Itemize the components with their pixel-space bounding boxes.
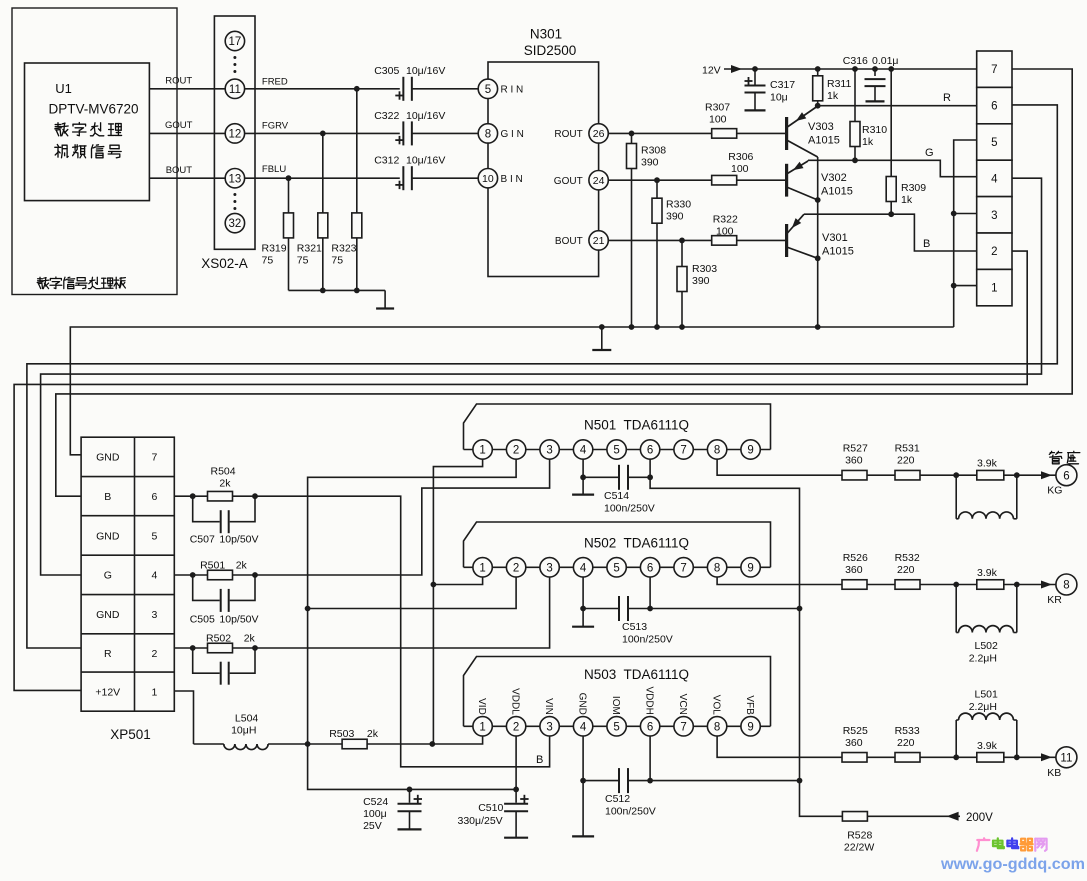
N502 pin 6 bbox=[640, 558, 659, 577]
svg-text:10μ/16V: 10μ/16V bbox=[406, 155, 445, 167]
svg-text:22/2W: 22/2W bbox=[844, 842, 874, 854]
svg-text:V303: V303 bbox=[808, 121, 834, 133]
junction N503 pin6/C512 bbox=[647, 778, 653, 784]
svg-text:R306: R306 bbox=[728, 151, 753, 163]
svg-text:2: 2 bbox=[151, 648, 157, 660]
capacitor C514 100n/250V bbox=[618, 465, 629, 490]
N502 pin 9 bbox=[741, 558, 760, 577]
svg-text:390: 390 bbox=[692, 275, 710, 287]
junction 200V rail at N502 bbox=[797, 606, 803, 612]
svg-text:R532: R532 bbox=[895, 552, 920, 564]
node junction on FGRV at R321 bbox=[320, 131, 326, 137]
wire ROUT to R307 bbox=[608, 132, 711, 134]
svg-text:220: 220 bbox=[897, 455, 915, 467]
svg-text:75: 75 bbox=[331, 255, 343, 267]
svg-text:3.9k: 3.9k bbox=[977, 567, 998, 579]
svg-text:BOUT: BOUT bbox=[166, 165, 193, 176]
svg-text:GND: GND bbox=[577, 693, 588, 715]
svg-text:1: 1 bbox=[479, 562, 485, 574]
wire C305 to N301 pin 5 bbox=[412, 88, 478, 90]
svg-text:VIN: VIN bbox=[543, 698, 554, 715]
svg-text:C505: C505 bbox=[190, 614, 215, 626]
N503 pin 4 bbox=[573, 717, 592, 736]
svg-text:220: 220 bbox=[897, 564, 915, 576]
svg-text:0.01μ: 0.01μ bbox=[872, 55, 899, 67]
N503 pin 9 bbox=[741, 717, 760, 736]
stub N502 pin1 bbox=[433, 577, 482, 585]
watermark 广电电器网 bbox=[983, 838, 986, 839]
svg-text:A1015: A1015 bbox=[821, 186, 853, 198]
svg-text:6: 6 bbox=[647, 445, 653, 457]
wire GOUT from U1 to XS02-A pin 12 bbox=[149, 132, 225, 134]
wire 200V rail down to R528 line bbox=[800, 781, 843, 817]
svg-text:R330: R330 bbox=[666, 199, 691, 211]
svg-text:GOUT: GOUT bbox=[165, 120, 193, 131]
capacitor C513 100n/250V bbox=[618, 596, 629, 621]
svg-text:R: R bbox=[943, 92, 951, 104]
node junction on FBLU at R319 bbox=[286, 175, 292, 181]
svg-text:9: 9 bbox=[747, 562, 753, 574]
svg-text:360: 360 bbox=[845, 737, 863, 749]
wire BOUT to R322 bbox=[608, 239, 711, 241]
svg-text:5: 5 bbox=[613, 445, 619, 457]
svg-text:R I N: R I N bbox=[501, 85, 524, 96]
capacitor C305 10u/16V bbox=[402, 77, 413, 101]
svg-text:75: 75 bbox=[297, 255, 309, 267]
transistor V301 A1015 bbox=[785, 224, 788, 257]
capacitor C312 10u/16V bbox=[402, 166, 413, 190]
svg-text:100: 100 bbox=[731, 163, 749, 175]
wire R525 to R533 bbox=[867, 756, 895, 758]
svg-text:32: 32 bbox=[229, 218, 242, 230]
wire V303/V302/V301 collectors to ground bus bbox=[817, 157, 819, 327]
svg-text:ROUT: ROUT bbox=[554, 129, 582, 140]
svg-text:B I N: B I N bbox=[501, 174, 523, 185]
resistor R504 2k bbox=[208, 491, 233, 501]
wire N503 pin6 down bbox=[649, 736, 651, 781]
svg-text:2k: 2k bbox=[367, 728, 379, 740]
svg-text:ROUT: ROUT bbox=[165, 76, 192, 87]
N501 pin 9 bbox=[741, 440, 760, 459]
svg-text:10μH: 10μH bbox=[231, 725, 256, 737]
svg-text:1k: 1k bbox=[827, 90, 839, 102]
board label 数字信号处理板 bbox=[38, 278, 43, 280]
wire VID chain N501.1-N502.1-N503.1 bbox=[433, 459, 482, 744]
svg-text:390: 390 bbox=[666, 211, 684, 223]
stub to pin 1 bbox=[954, 285, 977, 287]
svg-text:GND: GND bbox=[96, 452, 120, 464]
resistor R319 75 bbox=[284, 213, 294, 238]
N301 pin 10 BIN bbox=[478, 169, 497, 188]
IC U1 DPTV-MV6720 box bbox=[25, 63, 150, 201]
svg-text:21: 21 bbox=[593, 235, 605, 247]
XS02-A pin 13 bbox=[225, 169, 244, 188]
junction 12V/C316 bbox=[872, 66, 878, 72]
IC N503 TDA6111Q box bbox=[464, 657, 771, 727]
resistor R307 100 in series to V303 base bbox=[712, 129, 737, 139]
svg-text:11: 11 bbox=[229, 84, 241, 96]
resistor R527 360 bbox=[842, 470, 867, 480]
resistor R330 390 to ground bus bbox=[656, 180, 658, 327]
svg-text:10μ/16V: 10μ/16V bbox=[406, 110, 445, 122]
junction damping network left bbox=[953, 472, 959, 478]
resistor R533 220 bbox=[895, 753, 920, 763]
svg-text:220: 220 bbox=[897, 737, 915, 749]
resistor R310 1k from 12V to V302 emitter bbox=[854, 69, 856, 160]
wire C513 to 200V rail bbox=[650, 608, 799, 610]
svg-text:100: 100 bbox=[709, 114, 727, 126]
capacitor C510 330u/25V bbox=[515, 789, 517, 803]
socket pin 6 KG bbox=[1056, 465, 1077, 486]
N501 pin 4 bbox=[573, 440, 592, 459]
svg-text:C507: C507 bbox=[190, 534, 215, 546]
svg-text:2k: 2k bbox=[219, 478, 231, 490]
svg-text:C305: C305 bbox=[374, 65, 399, 77]
svg-text:L501: L501 bbox=[975, 689, 999, 701]
svg-text:100n/250V: 100n/250V bbox=[604, 503, 655, 515]
svg-text:G I N: G I N bbox=[501, 129, 524, 140]
wire N503 pin4 to ground and C512 bbox=[582, 736, 584, 781]
inductor L504 10uH bbox=[194, 743, 224, 745]
junction ground stem bbox=[599, 324, 605, 330]
svg-text:R323: R323 bbox=[331, 243, 356, 255]
wire C322 to N301 pin 8 bbox=[412, 132, 478, 134]
capacitor C507 10p/50V parallel bbox=[193, 496, 221, 522]
junction R501 right bbox=[252, 572, 258, 578]
svg-text:FRED: FRED bbox=[262, 77, 288, 88]
wire BOUT from U1 to XS02-A pin 13 bbox=[149, 177, 225, 179]
junction R503/VID chain bbox=[429, 741, 435, 747]
svg-text:B: B bbox=[536, 754, 543, 766]
svg-text:R501: R501 bbox=[200, 560, 225, 572]
resistor R309 1k from 12V to V301 emitter bbox=[890, 69, 892, 214]
junction 12V/C317 bbox=[752, 66, 758, 72]
N503 pin 1 bbox=[473, 717, 492, 736]
junction V302 emitter / R310 / G line bbox=[852, 157, 858, 163]
svg-text:R533: R533 bbox=[895, 725, 920, 737]
svg-text:C512: C512 bbox=[605, 793, 630, 805]
svg-text:2.2μH: 2.2μH bbox=[969, 701, 997, 713]
svg-text:C316: C316 bbox=[843, 55, 868, 67]
svg-text:R504: R504 bbox=[211, 466, 236, 478]
N503 pin 2 bbox=[506, 717, 525, 736]
svg-text:1: 1 bbox=[151, 687, 157, 699]
svg-text:9: 9 bbox=[747, 445, 753, 457]
svg-text:4: 4 bbox=[580, 721, 587, 733]
svg-text:A1015: A1015 bbox=[808, 135, 840, 147]
svg-text:9: 9 bbox=[747, 721, 753, 733]
N501 pin 1 bbox=[473, 440, 492, 459]
junction R501 left bbox=[190, 572, 196, 578]
wire from connector pin 6 (R) wrapping to XP501 row 2 bbox=[27, 105, 1057, 648]
N502 pin 1 bbox=[473, 558, 492, 577]
N503 pin 7 bbox=[674, 717, 693, 736]
CRT connector pins 7..1 outline bbox=[977, 51, 1012, 87]
resistor R531 220 bbox=[895, 470, 920, 480]
N502 pin 8 bbox=[707, 558, 726, 577]
svg-text:100: 100 bbox=[716, 226, 734, 238]
svg-text:VDDH: VDDH bbox=[644, 686, 655, 714]
svg-text:100n/250V: 100n/250V bbox=[605, 806, 656, 818]
wire from connector pin 4 (G) wrapping to XP501 row 4 bbox=[41, 178, 1042, 575]
svg-text:7: 7 bbox=[680, 721, 686, 733]
svg-text:1k: 1k bbox=[862, 136, 874, 148]
N501 pin 3 bbox=[540, 440, 559, 459]
XS02-A ellipsis dots upper bbox=[233, 56, 236, 59]
capacitor parallel with R502 bbox=[193, 648, 221, 673]
svg-text:GND: GND bbox=[96, 530, 120, 542]
capacitor C317 10u to ground bbox=[754, 69, 756, 85]
svg-text:VFB: VFB bbox=[744, 695, 755, 715]
svg-text:VDDL: VDDL bbox=[510, 688, 521, 715]
svg-text:390: 390 bbox=[641, 157, 659, 169]
svg-text:25V: 25V bbox=[363, 820, 382, 832]
capacitor C512 100n/250V bbox=[618, 768, 629, 793]
resistor R501 2k bbox=[208, 570, 233, 580]
svg-text:5: 5 bbox=[485, 84, 491, 96]
svg-text:2.2μH: 2.2μH bbox=[969, 653, 997, 665]
N502 pin 4 bbox=[573, 558, 592, 577]
svg-text:SID2500: SID2500 bbox=[524, 43, 577, 58]
junction VDDL rail C524 bbox=[407, 787, 413, 793]
wire KG output from pin 8 of IC bbox=[717, 459, 842, 475]
svg-text:1: 1 bbox=[479, 445, 485, 457]
junction 12V/R309 bbox=[888, 66, 894, 72]
svg-text:1k: 1k bbox=[901, 194, 913, 206]
wire joining resistor bottoms bbox=[289, 289, 386, 291]
svg-text:XS02-A: XS02-A bbox=[201, 256, 248, 271]
svg-text:10: 10 bbox=[482, 173, 494, 185]
junction damping network right bbox=[1014, 582, 1020, 588]
svg-text:8: 8 bbox=[714, 445, 720, 457]
N502 pin 7 bbox=[674, 558, 693, 577]
svg-text:4: 4 bbox=[580, 445, 587, 457]
junction R303 bottom bbox=[679, 324, 685, 330]
wire R526 to R532 bbox=[867, 584, 895, 586]
wire ground chain to connector pins 5,3,1 bbox=[954, 140, 977, 327]
wire VDDL chain N501.2-N502.2 down to L504 node bbox=[308, 459, 516, 789]
svg-text:KG: KG bbox=[1047, 485, 1062, 497]
svg-text:3: 3 bbox=[991, 210, 997, 222]
svg-text:2: 2 bbox=[991, 246, 997, 258]
junction V303 emitter / R311 / R line bbox=[815, 103, 821, 109]
svg-text:B: B bbox=[104, 491, 111, 503]
svg-text:C510: C510 bbox=[478, 802, 503, 814]
svg-text:7: 7 bbox=[151, 452, 157, 464]
wire N502 pin4 to ground and C513 bbox=[582, 577, 584, 609]
svg-text:FGRV: FGRV bbox=[262, 121, 289, 132]
wire R532 to damping network bbox=[920, 584, 956, 586]
svg-text:11: 11 bbox=[1060, 752, 1072, 764]
XS02-A pin 11 bbox=[225, 79, 244, 98]
svg-text:6: 6 bbox=[151, 491, 157, 503]
junction damping network left bbox=[953, 582, 959, 588]
resistor R503 2k bbox=[308, 743, 433, 745]
svg-text:VCN: VCN bbox=[677, 694, 688, 715]
svg-text:8: 8 bbox=[714, 721, 720, 733]
wire 200V rail N502 to N503 bbox=[799, 609, 801, 781]
resistor R321 75 bbox=[318, 213, 328, 238]
resistor R306 100 in series to V302 base bbox=[712, 175, 737, 185]
wire C512 to 200V rail bbox=[650, 780, 799, 782]
IC N301 SID2500 box bbox=[488, 62, 599, 277]
wire G route XP501 to N501 pin 3 bbox=[255, 459, 550, 575]
wire R route XP501 to N502 pin 3 bbox=[255, 577, 550, 648]
svg-text:+12V: +12V bbox=[95, 687, 120, 699]
U1 label 视频信号 bbox=[57, 145, 58, 147]
svg-text:G: G bbox=[925, 147, 934, 159]
wire B route XP501 to N503 pin 3 bbox=[255, 496, 550, 767]
svg-text:330μ/25V: 330μ/25V bbox=[458, 815, 503, 827]
N501 pin 8 bbox=[707, 440, 726, 459]
svg-text:N503 TDA6111Q: N503 TDA6111Q bbox=[584, 667, 689, 682]
svg-text:3: 3 bbox=[546, 721, 552, 733]
wire R307 to V303 base bbox=[737, 132, 787, 134]
resistor R308 390 to ground bus bbox=[631, 133, 633, 327]
wire R306 to V302 base bbox=[737, 179, 787, 181]
label socket 管座 bbox=[1049, 451, 1051, 454]
svg-text:R322: R322 bbox=[713, 214, 738, 226]
wire KB output from pin 8 of IC bbox=[717, 736, 842, 757]
junction R504 left bbox=[190, 493, 196, 499]
N501 pin 7 bbox=[674, 440, 693, 459]
junction V302 collector bbox=[815, 197, 821, 203]
N501 pin 2 bbox=[506, 440, 525, 459]
svg-text:N501 TDA6111Q: N501 TDA6111Q bbox=[584, 418, 689, 433]
ground bus wire bbox=[70, 327, 953, 455]
capacitor C524 100u 25V bbox=[409, 789, 411, 803]
svg-text:C312: C312 bbox=[374, 155, 399, 167]
resistor R532 220 bbox=[895, 580, 920, 590]
wire from connector pin 2 (B) wrapping to XP501 row 1 bbox=[14, 251, 1027, 690]
inductor parallel damping bbox=[955, 475, 957, 519]
svg-text:R307: R307 bbox=[705, 102, 730, 114]
wire R528 to 200V source bbox=[867, 815, 960, 817]
svg-text:GOUT: GOUT bbox=[554, 176, 583, 187]
svg-text:4: 4 bbox=[151, 570, 157, 582]
svg-text:R321: R321 bbox=[297, 243, 322, 255]
svg-text:A1015: A1015 bbox=[822, 246, 854, 258]
N503 pin 5 bbox=[607, 717, 626, 736]
junction damping network right bbox=[1014, 754, 1020, 760]
junction R323 bottom bbox=[354, 288, 360, 294]
svg-text:2k: 2k bbox=[236, 560, 248, 572]
svg-text:5: 5 bbox=[613, 562, 619, 574]
ground symbol below bus bbox=[601, 327, 603, 350]
svg-text:R528: R528 bbox=[847, 830, 872, 842]
wire R533 to damping network bbox=[920, 756, 956, 758]
svg-text:8: 8 bbox=[1063, 580, 1069, 592]
svg-text:2k: 2k bbox=[244, 633, 256, 645]
wire ROUT from U1 to XS02-A pin 11 bbox=[149, 88, 225, 90]
svg-text:100μ: 100μ bbox=[363, 808, 387, 820]
junction 200V rail at N503 bbox=[797, 778, 803, 784]
wire B line (blue) from V301 emitter to CRT connector pin 2 bbox=[891, 214, 977, 251]
inductor parallel damping bbox=[955, 585, 957, 633]
svg-text:FBLU: FBLU bbox=[262, 164, 286, 175]
svg-text:10μ: 10μ bbox=[770, 92, 788, 104]
svg-text:R309: R309 bbox=[901, 182, 926, 194]
svg-text:L504: L504 bbox=[235, 713, 259, 725]
resistor R528 22/2W from 200V bbox=[842, 812, 867, 822]
svg-text:5: 5 bbox=[151, 530, 157, 542]
XS02-A pin 17 bbox=[225, 31, 244, 50]
wire GOUT to R306 bbox=[608, 179, 711, 181]
capacitor C322 10u/16V bbox=[402, 121, 413, 145]
svg-text:VOL: VOL bbox=[711, 695, 722, 715]
capacitor C316 0.01u to ground bbox=[874, 69, 876, 76]
svg-text:3.9k: 3.9k bbox=[977, 740, 998, 752]
wire G line (green) to CRT connector pin 4 bbox=[855, 160, 977, 176]
svg-text:4: 4 bbox=[580, 562, 587, 574]
junction R502 left bbox=[190, 645, 196, 651]
connector XP501 outline bbox=[81, 437, 174, 711]
transistor V303 A1015 bbox=[785, 117, 788, 150]
svg-text:B: B bbox=[923, 238, 930, 250]
wire N501 pin6 to 200V rail bbox=[650, 477, 799, 608]
junction ROUT/R308 bbox=[629, 131, 635, 137]
svg-text:8: 8 bbox=[485, 129, 491, 141]
N501 pin 6 bbox=[640, 440, 659, 459]
svg-text:XP501: XP501 bbox=[110, 727, 151, 742]
capacitor C505 10p/50V parallel bbox=[193, 575, 221, 600]
svg-text:7: 7 bbox=[680, 562, 686, 574]
svg-text:13: 13 bbox=[229, 173, 242, 185]
wire N501 pin4 to ground and C514 bbox=[582, 459, 584, 477]
svg-text:3: 3 bbox=[546, 445, 552, 457]
svg-text:100n/250V: 100n/250V bbox=[622, 634, 673, 646]
svg-text:6: 6 bbox=[647, 721, 653, 733]
XS02-A pin 12 bbox=[225, 124, 244, 143]
wire XP501 row4 G to R501 bbox=[174, 574, 192, 576]
svg-text:IOM: IOM bbox=[610, 696, 621, 715]
svg-text:4: 4 bbox=[991, 173, 998, 185]
junction VDDL rail C510 / N503 pin2 bbox=[513, 787, 519, 793]
svg-text:KR: KR bbox=[1047, 594, 1062, 606]
N502 pin 5 bbox=[607, 558, 626, 577]
junction V301 emitter / R309 bbox=[888, 211, 894, 217]
junction 12V/R311 bbox=[815, 66, 821, 72]
N301 pin 8 GIN bbox=[478, 124, 497, 143]
svg-text:R308: R308 bbox=[641, 145, 666, 157]
wire to CRT socket pin 11 bbox=[1017, 756, 1056, 758]
N301 pin 5 RIN bbox=[478, 79, 497, 98]
N502 pin 3 bbox=[540, 558, 559, 577]
svg-text:R: R bbox=[104, 648, 112, 660]
svg-text:N502 TDA6111Q: N502 TDA6111Q bbox=[584, 536, 689, 551]
svg-text:KB: KB bbox=[1047, 767, 1061, 779]
svg-text:1: 1 bbox=[479, 721, 485, 733]
junction N502 pin6/C513 bbox=[647, 606, 653, 612]
wire FRED from pin 11 to C305 bbox=[245, 88, 400, 90]
wire R527 to R531 bbox=[867, 474, 895, 476]
wire N501 pin6 down bbox=[649, 459, 651, 477]
svg-text:6: 6 bbox=[647, 562, 653, 574]
junction R504 right bbox=[252, 493, 258, 499]
svg-text:5: 5 bbox=[613, 721, 619, 733]
svg-text:10p/50V: 10p/50V bbox=[219, 614, 258, 626]
wire from connector pin 7 (12V) wrapping to lower half bbox=[56, 69, 1072, 496]
svg-text:12: 12 bbox=[229, 129, 242, 141]
wire R531 to damping network bbox=[920, 474, 956, 476]
resistor R526 360 bbox=[842, 580, 867, 590]
svg-text:10μ/16V: 10μ/16V bbox=[406, 65, 445, 77]
svg-text:360: 360 bbox=[845, 455, 863, 467]
svg-text:2: 2 bbox=[513, 562, 519, 574]
svg-text:R303: R303 bbox=[692, 263, 717, 275]
wire XP501 row6 B to R504 bbox=[174, 495, 192, 497]
svg-text:17: 17 bbox=[229, 36, 242, 48]
